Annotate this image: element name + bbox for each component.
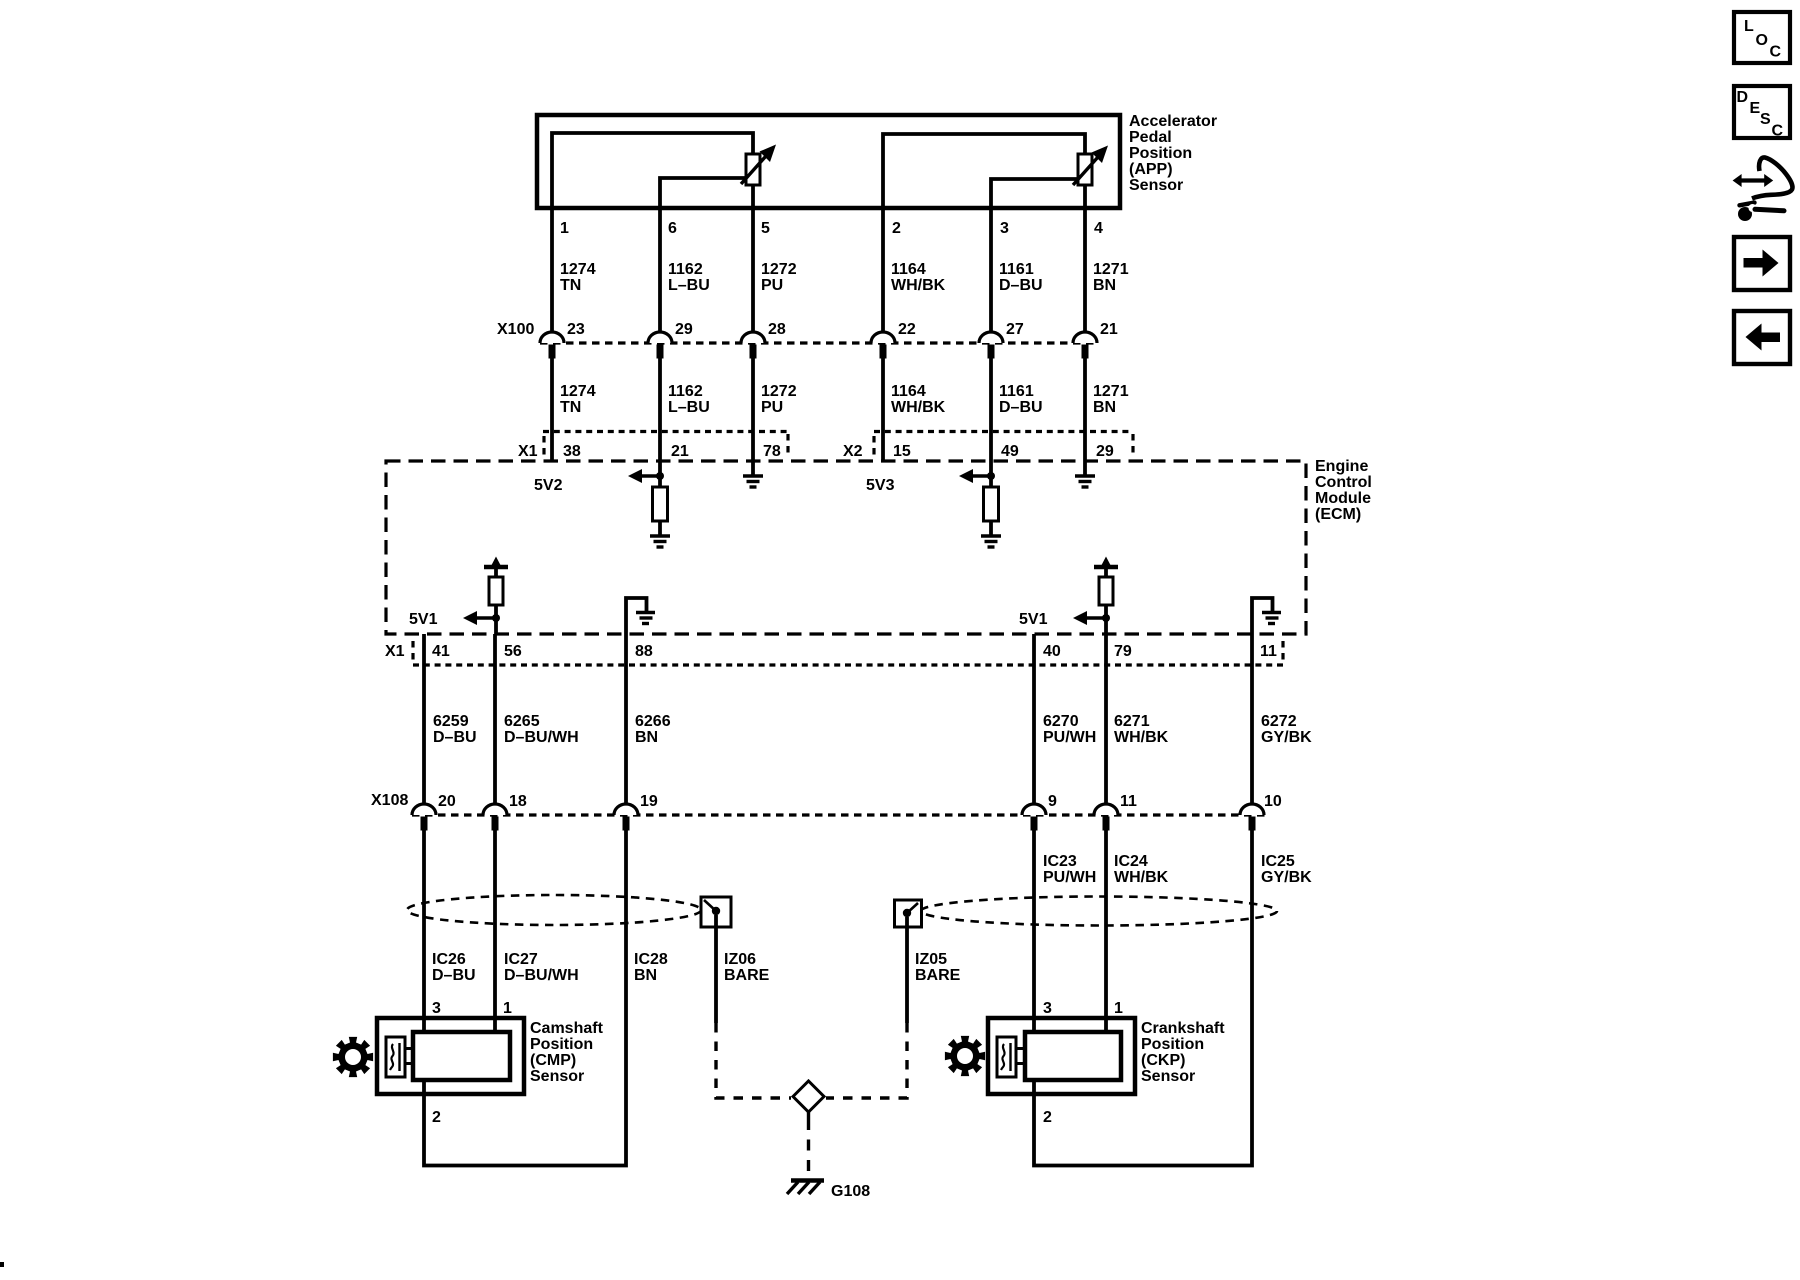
connector X108 terminal pin 9 [1022, 793, 1057, 831]
wire label 1274 TN (upper) [560, 261, 596, 294]
connector X108 terminal pin 20 [412, 793, 456, 831]
svg-text:X108: X108 [371, 792, 408, 809]
svg-text:5V1: 5V1 [409, 611, 438, 628]
svg-text:1271: 1271 [1093, 261, 1129, 278]
svg-text:4: 4 [1094, 220, 1103, 237]
forward arrow button [1734, 237, 1790, 290]
ground ECM internal (pin 49) [981, 536, 1001, 547]
resistor ECM 5V1 (left) [489, 577, 503, 605]
svg-text:L–BU: L–BU [668, 399, 710, 416]
svg-text:WH/BK: WH/BK [891, 399, 946, 416]
svg-text:29: 29 [675, 321, 693, 338]
svg-text:6: 6 [668, 220, 677, 237]
svg-text:(CKP): (CKP) [1141, 1052, 1185, 1069]
svg-text:O: O [1756, 32, 1768, 49]
wire label 6266 BN [635, 713, 671, 746]
svg-text:TN: TN [560, 399, 581, 416]
svg-text:1271: 1271 [1093, 383, 1129, 400]
wire X108-9 to CKP pin 3 [1032, 830, 1036, 1032]
svg-text:Sensor: Sensor [530, 1068, 584, 1085]
wire APP pin6 to X100-29 [658, 208, 662, 332]
wire ECM pin 29 to ground [1083, 461, 1087, 475]
drain wire IZ06 solid [714, 915, 718, 1023]
gear icon (CMP reluctor) [333, 1037, 373, 1077]
svg-text:L–BU: L–BU [668, 277, 710, 294]
svg-text:3: 3 [432, 1000, 441, 1017]
ECM dashed box [386, 461, 1306, 634]
5V1 reference arrow (right) [1073, 611, 1110, 625]
wire ECM X1-41 to X108-20 [422, 634, 426, 804]
svg-text:WH/BK: WH/BK [1114, 729, 1169, 746]
svg-text:21: 21 [671, 443, 689, 460]
svg-text:1272: 1272 [761, 261, 797, 278]
svg-text:(CMP): (CMP) [530, 1052, 576, 1069]
svg-text:22: 22 [898, 321, 916, 338]
svg-text:PU/WH: PU/WH [1043, 729, 1096, 746]
svg-text:79: 79 [1114, 643, 1132, 660]
svg-text:WH/BK: WH/BK [1114, 869, 1169, 886]
wire label 1161 D-BU (lower) [999, 383, 1043, 416]
svg-text:1274: 1274 [560, 261, 596, 278]
svg-text:D–BU/WH: D–BU/WH [504, 967, 579, 984]
wire label IC23 PU/WH [1043, 853, 1096, 886]
svg-text:5V2: 5V2 [534, 477, 563, 494]
svg-text:6266: 6266 [635, 713, 671, 730]
svg-text:BN: BN [635, 729, 658, 746]
connector X100 terminal pin 27 [979, 321, 1024, 359]
5V2 reference arrow on pin 21 [628, 469, 664, 483]
svg-text:BARE: BARE [724, 967, 770, 984]
svg-text:X1: X1 [518, 443, 538, 460]
wire APP pin3 to X100-27 [989, 208, 993, 332]
wire ECM pin 21 to resistor [658, 461, 662, 487]
wire label 1161 D-BU (upper) [999, 261, 1043, 294]
svg-text:BN: BN [1093, 399, 1116, 416]
connector X108 terminal pin 10 [1240, 793, 1282, 831]
svg-text:6270: 6270 [1043, 713, 1079, 730]
svg-text:78: 78 [763, 443, 781, 460]
wire ECM pin 49 to resistor [989, 461, 993, 487]
connector X108 dashed line [412, 813, 1265, 816]
wire X108-18 to CMP pin 1 [493, 830, 497, 1032]
svg-text:3: 3 [1000, 220, 1009, 237]
wire pin6 wiper [660, 178, 746, 208]
connector X100 dashed line [540, 341, 1097, 344]
svg-text:1162: 1162 [668, 383, 703, 400]
svg-text:5: 5 [761, 220, 770, 237]
wire label IZ06 BARE [724, 951, 770, 984]
svg-text:88: 88 [635, 643, 653, 660]
wire pin2 to potentiometer 2 top (loop) [883, 134, 1085, 208]
Accelerator Pedal Position (APP) Sensor label [1129, 113, 1217, 194]
potentiometer APP1 wiper arrow [741, 145, 776, 185]
5V1 supply bar (right) [1094, 557, 1118, 568]
svg-text:Engine: Engine [1315, 458, 1368, 475]
wire X100 to ECM X1-38 [550, 358, 554, 461]
wire X108-20 to CMP pin 3 [422, 830, 426, 1032]
svg-text:6272: 6272 [1261, 713, 1297, 730]
wrench and arrows icon [1733, 157, 1793, 221]
wire ECM X1-40 to X108-9 [1032, 634, 1036, 804]
svg-text:Pedal: Pedal [1129, 129, 1172, 146]
wire 5V1 bar to resistor (right) [1104, 569, 1108, 577]
wire potentiometer APP1 bottom to pin 5 [751, 185, 755, 208]
svg-text:1164: 1164 [891, 383, 926, 400]
svg-text:IZ05: IZ05 [915, 951, 947, 968]
svg-text:BN: BN [1093, 277, 1116, 294]
connector X100 terminal pin 22 [871, 321, 916, 359]
svg-text:38: 38 [563, 443, 581, 460]
CKP element connection stubs [1016, 1049, 1025, 1064]
svg-text:D–BU/WH: D–BU/WH [504, 729, 579, 746]
drain wire IZ06 dashed to splice [716, 1023, 791, 1098]
svg-text:3: 3 [1043, 1000, 1052, 1017]
shield ellipse (CMP harness) [407, 895, 701, 925]
wire ECM X1-79 to X108-11 [1104, 634, 1108, 804]
wire X100 to ECM X2-15 [881, 358, 885, 461]
5V1 supply bar (left) [484, 557, 508, 568]
wire label 1162 L-BU (lower) [668, 383, 710, 416]
drain wire IZ05 dashed to splice [826, 1023, 907, 1098]
wire X100 to ECM X1-78 [751, 358, 755, 461]
wire label IC24 WH/BK [1114, 853, 1169, 886]
svg-text:1: 1 [560, 220, 569, 237]
svg-text:11: 11 [1260, 643, 1277, 660]
potentiometer APP1 resistor element [746, 154, 760, 185]
Engine Control Module (ECM) label [1315, 458, 1372, 523]
svg-text:1: 1 [503, 1000, 512, 1017]
svg-text:23: 23 [567, 321, 585, 338]
page corner mark [0, 1262, 4, 1267]
connector X108 terminal pin 18 [483, 793, 527, 831]
svg-text:9: 9 [1048, 793, 1057, 810]
connector X100 terminal pin 21 [1073, 321, 1118, 359]
back arrow button [1734, 311, 1790, 364]
ground ECM internal elbow (pin 11) [1252, 598, 1281, 634]
svg-text:(ECM): (ECM) [1315, 506, 1361, 523]
wire label IC27 D-BU/WH [504, 951, 579, 984]
svg-text:27: 27 [1006, 321, 1024, 338]
svg-text:56: 56 [504, 643, 522, 660]
svg-text:X1: X1 [385, 643, 405, 660]
wire 5V1 bar to resistor (left) [494, 569, 498, 577]
svg-text:G108: G108 [831, 1183, 870, 1200]
svg-text:TN: TN [560, 277, 581, 294]
wire label 1164 WH/BK (lower) [891, 383, 946, 416]
svg-text:IC24: IC24 [1114, 853, 1148, 870]
svg-text:15: 15 [893, 443, 911, 460]
ground ECM internal (pin 78) [743, 476, 763, 487]
svg-text:Position: Position [1141, 1036, 1204, 1053]
potentiometer APP2 resistor element [1078, 154, 1092, 185]
svg-text:29: 29 [1096, 443, 1114, 460]
wire label 1164 WH/BK (upper) [891, 261, 946, 294]
svg-text:GY/BK: GY/BK [1261, 869, 1312, 886]
svg-text:1272: 1272 [761, 383, 797, 400]
svg-text:41: 41 [432, 643, 450, 660]
wire X108-10 IC25 to CKP pin 2 (loop) [1034, 830, 1252, 1166]
svg-text:IC28: IC28 [634, 951, 668, 968]
svg-text:(APP): (APP) [1129, 161, 1173, 178]
wire potentiometer APP2 bottom to pin 4 [1083, 185, 1087, 208]
svg-text:L: L [1744, 18, 1754, 35]
svg-text:IC25: IC25 [1261, 853, 1295, 870]
wire pin3 wiper [991, 179, 1078, 208]
CKP sensor outer box [988, 1018, 1135, 1094]
wire label IC28 BN [634, 951, 668, 984]
wire resistor to ground (pin 21) [658, 521, 662, 535]
svg-text:Position: Position [1129, 145, 1192, 162]
resistor ECM (pin 21 pull-down) [653, 487, 668, 521]
connector X100 terminal pin 23 [540, 321, 585, 359]
5V1 reference arrow (left) [463, 611, 500, 625]
svg-text:IC26: IC26 [432, 951, 466, 968]
wire X100 to ECM X1-21 [658, 358, 662, 461]
svg-text:Module: Module [1315, 490, 1371, 507]
ground ECM internal (pin 21) [650, 536, 670, 547]
wire X100 to ECM X2-49 [989, 358, 993, 461]
connector X108 terminal pin 11 [1094, 793, 1137, 831]
svg-text:D–BU: D–BU [999, 399, 1043, 416]
wire label IC25 GY/BK [1261, 853, 1312, 886]
wire label 1272 PU (lower) [761, 383, 797, 416]
CMP element connection stubs [405, 1049, 413, 1064]
wire label 6272 GY/BK [1261, 713, 1312, 746]
wire label 6265 D-BU/WH [504, 713, 579, 746]
svg-text:Sensor: Sensor [1129, 177, 1183, 194]
ground ECM internal elbow (pin 88) [626, 598, 655, 634]
svg-text:GY/BK: GY/BK [1261, 729, 1312, 746]
wire APP pin2 to X100-22 [881, 208, 885, 332]
svg-text:21: 21 [1100, 321, 1118, 338]
gear icon (CKP reluctor) [945, 1036, 985, 1076]
svg-text:49: 49 [1001, 443, 1019, 460]
DESC navigation button [1734, 86, 1790, 140]
ground ECM internal (pin 29) [1075, 476, 1095, 487]
svg-text:D–BU: D–BU [433, 729, 477, 746]
CKP sensor element box [997, 1037, 1016, 1077]
wire label 1162 L-BU (upper) [668, 261, 710, 294]
svg-text:PU/WH: PU/WH [1043, 869, 1096, 886]
connector X1 (ECM bottom) dotted line [413, 641, 1283, 665]
wire ECM X1-88 to X108-19 [624, 634, 628, 804]
svg-text:18: 18 [509, 793, 527, 810]
shield termination square (IZ06) [701, 897, 731, 927]
svg-text:10: 10 [1264, 793, 1282, 810]
svg-text:BARE: BARE [915, 967, 961, 984]
svg-text:Accelerator: Accelerator [1129, 113, 1217, 130]
svg-text:19: 19 [640, 793, 658, 810]
svg-text:D–BU: D–BU [999, 277, 1043, 294]
svg-text:IC27: IC27 [504, 951, 538, 968]
wire label 1271 BN (upper) [1093, 261, 1129, 294]
svg-text:D: D [1737, 89, 1749, 106]
svg-text:40: 40 [1043, 643, 1061, 660]
APP sensor box [537, 115, 1120, 208]
wire resistor to ground (pin 49) [989, 521, 993, 535]
5V3 reference arrow on pin 49 [959, 469, 995, 483]
svg-text:2: 2 [432, 1109, 441, 1126]
svg-text:X100: X100 [497, 321, 534, 338]
CMP sensor element box [386, 1037, 405, 1077]
svg-text:28: 28 [768, 321, 786, 338]
splice diamond [793, 1081, 824, 1112]
Camshaft Position (CMP) Sensor label [530, 1020, 604, 1085]
wire label 1274 TN (lower) [560, 383, 596, 416]
svg-text:6271: 6271 [1114, 713, 1150, 730]
svg-text:IZ06: IZ06 [724, 951, 756, 968]
wire X100 to ECM X2-29 [1083, 358, 1087, 461]
svg-text:X2: X2 [843, 443, 863, 460]
svg-text:1162: 1162 [668, 261, 703, 278]
svg-text:IC23: IC23 [1043, 853, 1077, 870]
svg-text:1274: 1274 [560, 383, 596, 400]
svg-text:Crankshaft: Crankshaft [1141, 1020, 1225, 1037]
wire resistor to junction (right 5V1) [1104, 605, 1108, 634]
svg-text:D–BU: D–BU [432, 967, 476, 984]
svg-text:Control: Control [1315, 474, 1372, 491]
drain wire IZ05 solid [905, 917, 909, 1023]
svg-text:WH/BK: WH/BK [891, 277, 946, 294]
Crankshaft Position (CKP) Sensor label [1141, 1020, 1225, 1085]
resistor ECM (pin 49 pull-down) [984, 487, 999, 521]
wire splice to G108 dashed [807, 1112, 810, 1177]
svg-text:6259: 6259 [433, 713, 469, 730]
svg-text:2: 2 [892, 220, 901, 237]
CKP sensor inner connector box [1025, 1032, 1121, 1080]
shield termination square (IZ05) [895, 900, 922, 927]
wire APP pin1 to X100-23 [550, 208, 554, 332]
svg-text:1: 1 [1114, 1000, 1123, 1017]
ground G108 symbol [787, 1181, 824, 1195]
svg-text:5V1: 5V1 [1019, 611, 1048, 628]
svg-text:2: 2 [1043, 1109, 1052, 1126]
resistor ECM 5V1 (right) [1099, 577, 1113, 605]
svg-text:BN: BN [634, 967, 657, 984]
svg-text:PU: PU [761, 399, 783, 416]
connector X100 terminal pin 28 [741, 321, 786, 359]
wire label 6271 WH/BK [1114, 713, 1169, 746]
svg-text:Sensor: Sensor [1141, 1068, 1195, 1085]
svg-text:11: 11 [1120, 793, 1137, 810]
connector X100 terminal pin 29 [648, 321, 693, 359]
svg-text:Camshaft: Camshaft [530, 1020, 604, 1037]
wire label 6270 PU/WH [1043, 713, 1096, 746]
LOC navigation button [1734, 12, 1790, 63]
svg-text:1161: 1161 [999, 261, 1034, 278]
wire resistor to junction (left 5V1) [494, 605, 498, 634]
svg-text:S: S [1760, 111, 1771, 128]
connector X108 terminal pin 19 [614, 793, 658, 831]
CMP sensor outer box [377, 1018, 524, 1094]
wire label 6259 D-BU [433, 713, 477, 746]
CMP sensor inner connector box [413, 1032, 510, 1080]
svg-text:Position: Position [530, 1036, 593, 1053]
potentiometer APP2 wiper arrow [1073, 146, 1108, 186]
wire ECM X1-56 to X108-18 [493, 634, 497, 804]
wire X108-19 IC28 to CMP pin 2 (loop) [424, 830, 626, 1166]
wire label IZ05 BARE [915, 951, 961, 984]
wire ECM X1-11 to X108-10 [1250, 634, 1254, 804]
wire APP pin4 to X100-21 [1083, 208, 1087, 332]
svg-text:5V3: 5V3 [866, 477, 895, 494]
svg-text:1161: 1161 [999, 383, 1034, 400]
wire label 1271 BN (lower) [1093, 383, 1129, 416]
svg-text:6265: 6265 [504, 713, 540, 730]
wire APP pin5 to X100-28 [751, 208, 755, 332]
svg-text:PU: PU [761, 277, 783, 294]
svg-text:E: E [1750, 100, 1761, 117]
wire ECM pin 78 to ground [751, 461, 755, 475]
wire X108-11 to CKP pin 1 [1104, 830, 1108, 1032]
wire label 1272 PU (upper) [761, 261, 797, 294]
shield ellipse (CKP harness) [921, 897, 1277, 926]
wire pin1 to potentiometer top (loop) [552, 133, 753, 208]
svg-text:C: C [1770, 44, 1782, 61]
wire label IC26 D-BU [432, 951, 476, 984]
connector X1 (ECM top) dotted bracket [543, 432, 788, 460]
svg-text:C: C [1772, 123, 1784, 140]
connector X2 (ECM top) dotted bracket [874, 432, 1133, 460]
svg-text:20: 20 [438, 793, 456, 810]
svg-text:1164: 1164 [891, 261, 926, 278]
